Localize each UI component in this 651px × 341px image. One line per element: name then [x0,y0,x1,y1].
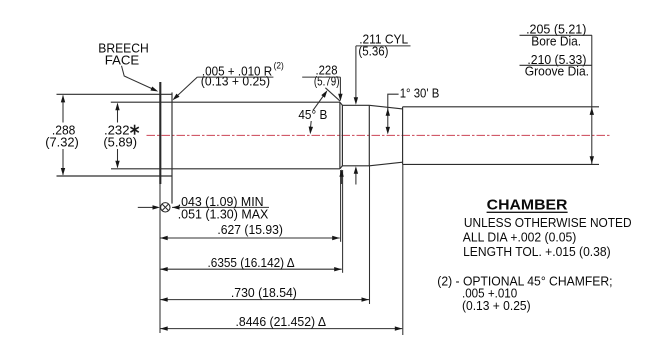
dimension .730 [160,299,369,301]
datum target circle-X symbol [161,203,170,212]
barrel bore top outline [403,106,599,108]
dimension .6355 [160,268,342,270]
cylinder bottom outline [342,165,369,167]
chamber body top outline [111,101,340,103]
leader from .005 R label to chamber mouth corner [175,77,198,98]
rim thickness right arrow with shaft [172,206,269,208]
45&#176; leader up to chamfer [313,94,325,110]
svg-text:(0.13 + 0.25): (0.13 + 0.25) [462,298,531,313]
svg-text:(5.89): (5.89) [103,135,137,150]
.211 leader down to cylinder top [355,46,357,99]
rim recess top outline [57,93,173,95]
extension line for .730 [369,166,371,304]
svg-text:ALL DIA +.002 (0.05): ALL DIA +.002 (0.05) [463,230,577,245]
cylinder top outline [342,104,369,106]
svg-text:.051 (1.30) MAX: .051 (1.30) MAX [178,207,269,222]
chamfer callout diagonal [325,88,340,101]
breech face extension line [159,184,161,333]
leader from BREECH FACE to breech line [122,66,154,90]
heavy asterisk [130,125,138,135]
svg-text:(0.13 + 0.25): (0.13 + 0.25) [201,74,270,89]
dimension .232 vertical arrow [117,104,119,123]
chamber end face vertical [339,102,341,169]
underline under .210 (5.33) [520,64,592,66]
chamfer bottom edge [340,166,343,169]
svg-text:.6355 (16.142) Δ: .6355 (16.142) Δ [208,255,295,270]
rim recess bottom outline [57,175,173,177]
chamfer top edge [340,102,343,105]
breech face thick line [159,82,161,184]
chamber body bottom outline [111,168,340,170]
svg-text:(7.32): (7.32) [45,135,79,150]
rim step vertical [171,92,173,203]
bore diameter dimension double arrow [591,35,593,164]
svg-text:LENGTH TOL. +.015 (0.38): LENGTH TOL. +.015 (0.38) [463,244,610,259]
extension line for .8446 [402,164,404,335]
dimension .8446 [160,328,402,330]
.228 bottom arrow pointing up [341,171,343,185]
svg-text:(5.79): (5.79) [314,74,340,89]
.211 bottom arrow pointing up [355,168,357,185]
extension line for .6355 [342,170,344,273]
centerline (red dash-dot axis) [147,134,611,136]
svg-text:45° B: 45° B [298,107,327,122]
underline under .211 CYL [356,45,411,47]
underline under .205 (5.21) [520,34,592,36]
underline under CHAMBER [487,211,568,213]
leade taper bottom [369,162,402,166]
45&#176; leader down to centerline [310,121,313,128]
svg-text:.8446 (21.452) Δ: .8446 (21.452) Δ [236,314,327,329]
chamfer end vertical [341,105,343,166]
svg-text:FACE: FACE [105,52,140,67]
svg-text:.730 (18.54): .730 (18.54) [231,285,297,300]
svg-text:.627 (15.93): .627 (15.93) [217,222,283,237]
svg-text:(2): (2) [274,61,284,71]
svg-text:Groove Dia.: Groove Dia. [525,64,589,79]
svg-text:1° 30' B: 1° 30' B [400,85,440,100]
extension line for .627 [340,170,342,242]
dimension .288 vertical arrow [62,96,64,123]
svg-text:UNLESS OTHERWISE NOTED: UNLESS OTHERWISE NOTED [464,215,632,230]
underline under .228 with elbow leader down [302,76,340,78]
dimension .627 [160,237,340,239]
barrel bore bottom outline [403,163,599,165]
svg-text:CHAMBER: CHAMBER [487,197,568,214]
leade taper top [369,105,402,109]
rim thickness left arrow [138,206,153,208]
cylinder end vertical [368,105,370,166]
underline under .005 + .010 R(2) [197,76,273,78]
taper end vertical [402,107,404,165]
